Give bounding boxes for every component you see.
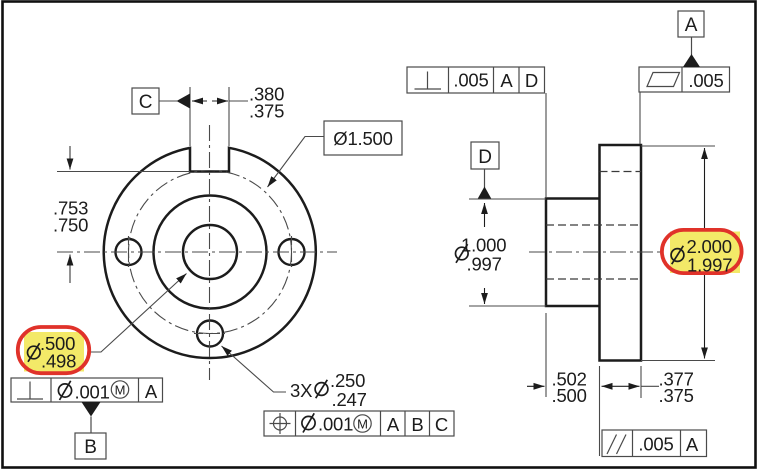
svg-text:A: A (686, 434, 699, 455)
svg-text:.005: .005 (453, 70, 488, 91)
vertical centerline (209, 125, 211, 380)
datum D box (471, 142, 499, 169)
FCF parallelism (602, 430, 707, 457)
Ø1.000 dim text (456, 244, 469, 263)
flange bottom extension line (641, 360, 715, 362)
flange right extension line (640, 366, 642, 398)
svg-text:.001: .001 (318, 414, 353, 435)
svg-text:Ø1.500: Ø1.500 (333, 128, 393, 149)
flange top extension line (641, 145, 715, 147)
datum B triangle and box (82, 402, 101, 417)
svg-text:A: A (387, 414, 400, 435)
leader FCF to hub face (545, 93, 547, 198)
svg-text:.498: .498 (41, 351, 76, 372)
svg-text:.500: .500 (552, 385, 587, 406)
boss circle (154, 196, 267, 309)
bore circle (183, 225, 237, 279)
svg-text:.005: .005 (638, 434, 673, 455)
slot width dimension extension lines (189, 87, 191, 146)
FCF perpendicularity (bore) (11, 378, 163, 402)
right hole crosshair (291, 236, 293, 268)
leader flatness FCF to flange face (639, 92, 641, 144)
3X hole leader (222, 346, 287, 392)
datum C leader and triangle (159, 100, 177, 102)
slot dimension arrows (192, 100, 207, 102)
svg-text:.247: .247 (332, 389, 367, 410)
Ø2.000 dim text (671, 246, 684, 264)
bore highlight (yellow/red) (24, 332, 84, 372)
outer flange circle with keyway slot (104, 148, 316, 358)
svg-text:C: C (139, 92, 153, 113)
svg-text:M: M (357, 417, 368, 432)
horizontal centerline (57, 251, 337, 253)
datum A box (678, 11, 704, 37)
.753 dimension arrows (69, 146, 71, 170)
svg-text:M: M (115, 383, 126, 398)
svg-text:1.000: 1.000 (461, 235, 506, 256)
bore size leader (90, 274, 187, 353)
Ø2.000 dimension line (704, 148, 706, 252)
svg-text:A: A (500, 70, 513, 91)
svg-text:D: D (478, 147, 492, 168)
svg-text:1.997: 1.997 (687, 255, 732, 276)
bolt hole bottom (197, 321, 223, 347)
.502 dimension arrows (527, 385, 545, 387)
svg-text:A: A (145, 381, 158, 402)
hub left extension line (545, 313, 547, 397)
svg-text:A: A (685, 15, 698, 36)
Ø1.500 leader (268, 137, 325, 188)
svg-text:.250: .250 (330, 370, 365, 391)
svg-text:B: B (411, 414, 423, 435)
bolt hole right (279, 239, 305, 265)
svg-text:C: C (435, 414, 448, 435)
Ø1.000 dimension arrows (484, 203, 486, 227)
side view centerline (529, 251, 663, 253)
svg-text:B: B (84, 437, 96, 458)
bolt circle (dash-dot) (129, 171, 292, 334)
svg-text:.005: .005 (688, 70, 723, 91)
bore dim text (28, 343, 41, 362)
bore hidden line top (546, 224, 641, 226)
bolt hole left (116, 239, 142, 265)
.377 dimension arrows (627, 385, 640, 387)
svg-text:.375: .375 (659, 385, 694, 406)
Ø1.500 label box (324, 121, 402, 155)
bottom hole crosshair (194, 333, 226, 335)
svg-text:.001: .001 (75, 382, 110, 403)
slot depth extension line (57, 171, 190, 173)
FCF position (3X holes) (264, 411, 454, 436)
flange rectangle (600, 145, 642, 361)
flange left extension line (to parallelism FCF) (599, 366, 601, 456)
left hole crosshair (128, 236, 130, 268)
svg-text:D: D (525, 70, 538, 91)
svg-text:.997: .997 (467, 254, 502, 275)
hub top extension line (469, 198, 546, 200)
svg-text:3X: 3X (290, 380, 312, 401)
FCF perpendicularity (hub face) (407, 67, 545, 93)
svg-text:.750: .750 (53, 215, 88, 236)
datum D triangle (484, 169, 486, 188)
keyway hidden line (600, 171, 642, 173)
hub bottom extension line (469, 305, 546, 307)
datum C box (132, 88, 159, 114)
hub rectangle (546, 199, 600, 307)
svg-text:.375: .375 (249, 101, 284, 122)
flange size highlight (yellow/red) (670, 232, 740, 274)
datum A triangle (691, 37, 693, 55)
FCF flatness (639, 67, 730, 92)
bore hidden line bottom (546, 278, 641, 280)
